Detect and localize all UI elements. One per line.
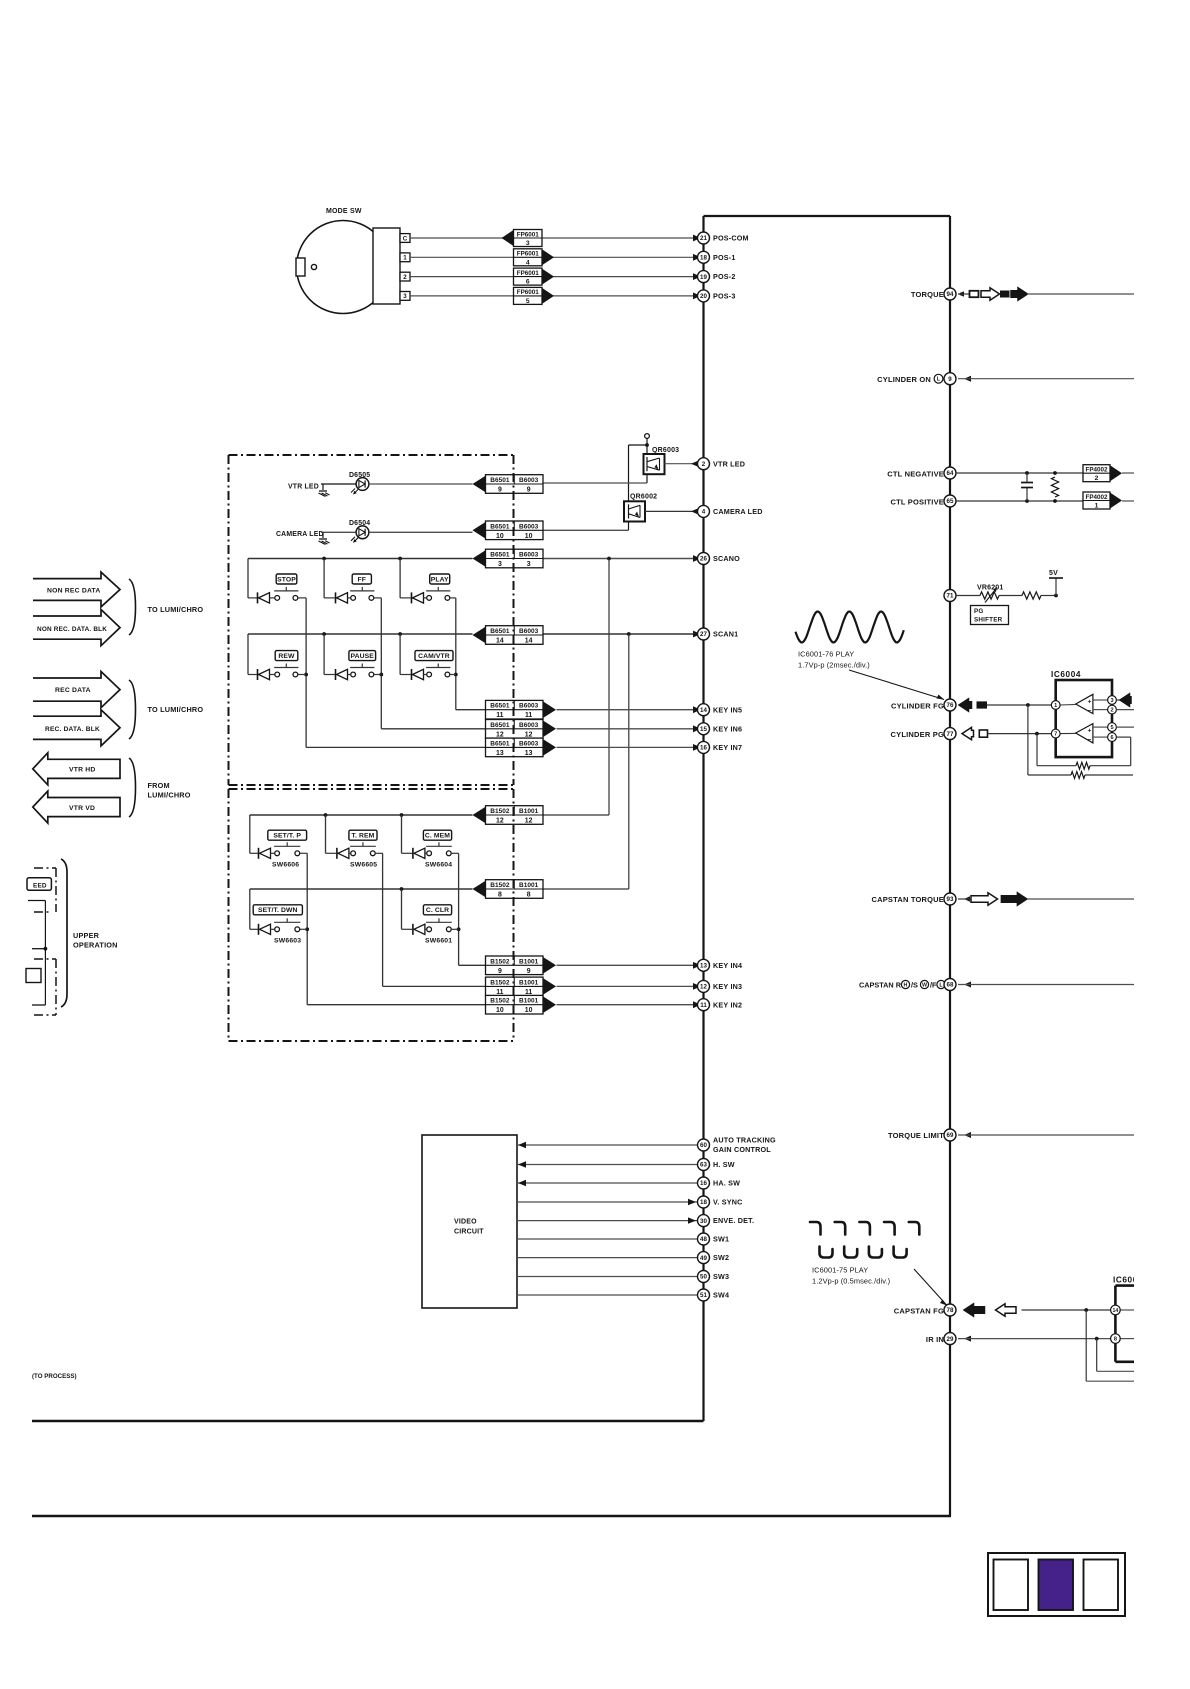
svg-text:12: 12 xyxy=(496,817,504,824)
svg-text:B6003: B6003 xyxy=(519,523,539,530)
svg-text:GAIN CONTROL: GAIN CONTROL xyxy=(713,1145,771,1154)
svg-text:CAPSTAN FG: CAPSTAN FG xyxy=(894,1306,944,1315)
svg-text:POS-COM: POS-COM xyxy=(713,234,749,243)
svg-text:10: 10 xyxy=(496,1007,504,1014)
svg-text:SW3: SW3 xyxy=(713,1272,729,1281)
svg-text:REC. DATA. BLK: REC. DATA. BLK xyxy=(45,726,100,733)
svg-text:B6501: B6501 xyxy=(490,740,510,747)
svg-text:FF: FF xyxy=(358,576,367,583)
svg-text:REC DATA: REC DATA xyxy=(55,687,91,694)
svg-text:TORQUE LIMIT: TORQUE LIMIT xyxy=(888,1131,944,1140)
svg-text:68: 68 xyxy=(947,982,954,989)
svg-text:9: 9 xyxy=(527,968,531,975)
svg-text:SW6605: SW6605 xyxy=(350,862,377,869)
svg-text:5: 5 xyxy=(1110,725,1113,731)
svg-text:TORQUE: TORQUE xyxy=(911,290,944,299)
svg-text:IR IN: IR IN xyxy=(926,1335,944,1344)
svg-text:B6003: B6003 xyxy=(519,703,539,710)
svg-text:18: 18 xyxy=(700,255,707,262)
svg-text:51: 51 xyxy=(700,1292,707,1299)
svg-text:SW2: SW2 xyxy=(713,1253,729,1262)
svg-text:FP6001: FP6001 xyxy=(517,289,540,296)
svg-text:QR6003: QR6003 xyxy=(652,447,679,454)
svg-text:EED: EED xyxy=(33,882,47,889)
svg-text:3: 3 xyxy=(1110,698,1113,704)
svg-text:B1502: B1502 xyxy=(490,808,510,815)
svg-text:−: − xyxy=(1088,737,1092,744)
svg-text:69: 69 xyxy=(947,1132,954,1139)
svg-text:12: 12 xyxy=(525,817,533,824)
svg-text:VTR LED: VTR LED xyxy=(288,484,319,491)
svg-text:16: 16 xyxy=(700,1180,707,1187)
svg-text:B1001: B1001 xyxy=(519,882,539,889)
svg-text:7: 7 xyxy=(1054,732,1057,738)
svg-text:10: 10 xyxy=(525,533,533,540)
svg-text:PAUSE: PAUSE xyxy=(351,653,375,660)
svg-text:12: 12 xyxy=(496,731,504,738)
svg-text:SW4: SW4 xyxy=(713,1291,729,1300)
svg-text:KEY IN5: KEY IN5 xyxy=(713,705,742,714)
svg-text:2: 2 xyxy=(403,274,407,281)
svg-text:−: − xyxy=(1088,708,1092,715)
svg-text:CYLINDER ON: CYLINDER ON xyxy=(877,375,931,384)
svg-text:KEY IN4: KEY IN4 xyxy=(713,961,742,970)
svg-text:14: 14 xyxy=(1113,1308,1119,1314)
svg-text:B6501: B6501 xyxy=(490,703,510,710)
svg-text:FP6001: FP6001 xyxy=(517,231,540,238)
svg-text:B1502: B1502 xyxy=(490,958,510,965)
svg-text:CAMERA LED: CAMERA LED xyxy=(276,531,324,538)
svg-text:OPERATION: OPERATION xyxy=(73,941,118,950)
svg-text:VR6201: VR6201 xyxy=(977,585,1004,592)
svg-text:L: L xyxy=(937,377,941,383)
svg-text:FP4002: FP4002 xyxy=(1085,466,1108,473)
svg-text:B6501: B6501 xyxy=(490,722,510,729)
svg-text:6: 6 xyxy=(526,279,530,286)
svg-text:B6501: B6501 xyxy=(490,551,510,558)
svg-text:/F: /F xyxy=(930,981,937,990)
svg-text:30: 30 xyxy=(700,1218,707,1225)
svg-text:T. REM: T. REM xyxy=(352,833,375,840)
svg-text:C. MEM: C. MEM xyxy=(425,833,450,840)
svg-text:11: 11 xyxy=(700,1002,707,1009)
svg-text:3: 3 xyxy=(498,561,502,568)
svg-text:POS-3: POS-3 xyxy=(713,292,736,301)
svg-text:B1502: B1502 xyxy=(490,998,510,1005)
svg-text:B6501: B6501 xyxy=(490,523,510,530)
svg-text:IC6004: IC6004 xyxy=(1051,670,1081,679)
svg-text:POS-2: POS-2 xyxy=(713,272,736,281)
svg-text:TO LUMI/CHRO: TO LUMI/CHRO xyxy=(148,705,204,714)
svg-text:2: 2 xyxy=(1095,475,1099,482)
svg-text:15: 15 xyxy=(700,726,707,733)
svg-text:CAMERA LED: CAMERA LED xyxy=(713,507,763,516)
svg-text:MODE SW: MODE SW xyxy=(326,208,362,215)
svg-text:SCANO: SCANO xyxy=(713,554,740,563)
svg-text:KEY IN7: KEY IN7 xyxy=(713,743,742,752)
svg-text:2: 2 xyxy=(1110,708,1113,714)
svg-text:14: 14 xyxy=(525,637,533,644)
svg-text:29: 29 xyxy=(947,1336,954,1343)
svg-text:9: 9 xyxy=(948,376,952,383)
svg-text:26: 26 xyxy=(700,556,707,563)
svg-text:48: 48 xyxy=(700,1236,707,1243)
svg-text:CAM/VTR: CAM/VTR xyxy=(418,653,450,660)
svg-text:C: C xyxy=(403,235,408,242)
svg-text:2: 2 xyxy=(702,461,706,468)
svg-text:B1001: B1001 xyxy=(519,979,539,986)
svg-text:1: 1 xyxy=(403,255,407,262)
svg-text:KEY IN6: KEY IN6 xyxy=(713,724,742,733)
svg-text:/S: /S xyxy=(911,981,918,990)
svg-text:8: 8 xyxy=(498,891,502,898)
svg-text:3: 3 xyxy=(526,240,530,247)
svg-text:B1001: B1001 xyxy=(519,998,539,1005)
svg-text:5V: 5V xyxy=(1049,570,1058,577)
svg-text:4: 4 xyxy=(702,509,706,516)
svg-text:B1001: B1001 xyxy=(519,958,539,965)
svg-text:CYLINDER FG: CYLINDER FG xyxy=(891,701,944,710)
svg-text:8: 8 xyxy=(1114,1337,1117,1343)
svg-text:49: 49 xyxy=(700,1255,707,1262)
svg-text:SW1: SW1 xyxy=(713,1235,729,1244)
svg-text:21: 21 xyxy=(700,235,707,242)
svg-text:B6003: B6003 xyxy=(519,477,539,484)
svg-text:+: + xyxy=(1088,727,1092,734)
svg-text:QR6002: QR6002 xyxy=(630,494,657,501)
svg-text:VTR LED: VTR LED xyxy=(713,459,745,468)
svg-text:SET/T. P: SET/T. P xyxy=(273,833,301,840)
svg-text:12: 12 xyxy=(525,731,533,738)
svg-text:B6003: B6003 xyxy=(519,722,539,729)
svg-text:AUTO TRACKING: AUTO TRACKING xyxy=(713,1136,776,1145)
svg-text:LUMI/CHRO: LUMI/CHRO xyxy=(148,791,191,800)
svg-text:C. CLR: C. CLR xyxy=(426,907,449,914)
svg-text:27: 27 xyxy=(700,631,707,638)
svg-text:63: 63 xyxy=(700,1162,707,1169)
svg-text:V. SYNC: V. SYNC xyxy=(713,1198,743,1207)
svg-text:B1001: B1001 xyxy=(519,808,539,815)
svg-text:10: 10 xyxy=(496,533,504,540)
svg-text:CYLINDER PG: CYLINDER PG xyxy=(891,730,944,739)
svg-text:IC6001-76 PLAY: IC6001-76 PLAY xyxy=(798,650,854,659)
svg-text:9: 9 xyxy=(527,486,531,493)
svg-text:IC6001-75 PLAY: IC6001-75 PLAY xyxy=(812,1265,868,1274)
svg-text:78: 78 xyxy=(947,1307,954,1314)
svg-text:13: 13 xyxy=(525,750,533,757)
svg-text:14: 14 xyxy=(496,637,504,644)
svg-text:50: 50 xyxy=(700,1274,707,1281)
svg-text:B6501: B6501 xyxy=(490,628,510,635)
svg-text:5: 5 xyxy=(526,298,530,305)
svg-text:3: 3 xyxy=(527,561,531,568)
svg-text:VIDEO: VIDEO xyxy=(454,1219,477,1226)
svg-text:FROM: FROM xyxy=(148,781,170,790)
svg-text:71: 71 xyxy=(947,593,954,600)
svg-text:8: 8 xyxy=(527,891,531,898)
svg-text:HA. SW: HA. SW xyxy=(713,1179,740,1188)
svg-text:SW6601: SW6601 xyxy=(425,938,452,945)
svg-text:H. SW: H. SW xyxy=(713,1160,735,1169)
svg-text:TO LUMI/CHRO: TO LUMI/CHRO xyxy=(148,605,204,614)
svg-text:20: 20 xyxy=(700,293,707,300)
svg-text:SHIFTER: SHIFTER xyxy=(974,616,1003,623)
svg-text:10: 10 xyxy=(525,1007,533,1014)
svg-text:VTR HD: VTR HD xyxy=(69,767,96,774)
svg-text:B1502: B1502 xyxy=(490,979,510,986)
svg-text:93: 93 xyxy=(947,896,954,903)
svg-text:1.2Vp-p (0.5msec./div.): 1.2Vp-p (0.5msec./div.) xyxy=(812,1276,890,1285)
svg-text:CIRCUIT: CIRCUIT xyxy=(454,1229,484,1236)
svg-text:B6501: B6501 xyxy=(490,477,510,484)
svg-text:SET/T. DWN: SET/T. DWN xyxy=(258,907,298,914)
svg-text:SCAN1: SCAN1 xyxy=(713,630,738,639)
svg-text:SW6603: SW6603 xyxy=(274,938,301,945)
svg-text:CAPSTAN TORQUE: CAPSTAN TORQUE xyxy=(871,895,944,904)
svg-text:64: 64 xyxy=(947,470,954,477)
svg-text:KEY IN3: KEY IN3 xyxy=(713,982,742,991)
svg-text:B6003: B6003 xyxy=(519,551,539,558)
svg-text:11: 11 xyxy=(525,712,532,719)
svg-text:CAPSTAN R: CAPSTAN R xyxy=(859,981,902,990)
svg-text:STOP: STOP xyxy=(277,576,296,583)
svg-text:6: 6 xyxy=(1110,735,1113,741)
svg-text:9: 9 xyxy=(498,486,502,493)
svg-text:65: 65 xyxy=(947,498,954,505)
svg-text:13: 13 xyxy=(700,963,707,970)
svg-text:76: 76 xyxy=(947,702,954,709)
svg-text:B6003: B6003 xyxy=(519,740,539,747)
svg-text:POS-1: POS-1 xyxy=(713,253,736,262)
svg-text:11: 11 xyxy=(496,712,503,719)
svg-text:FP6001: FP6001 xyxy=(517,251,540,258)
svg-text:FP6001: FP6001 xyxy=(517,270,540,277)
svg-text:60: 60 xyxy=(700,1142,707,1149)
svg-text:KEY IN2: KEY IN2 xyxy=(713,1000,742,1009)
svg-text:VTR VD: VTR VD xyxy=(69,805,95,812)
svg-text:(TO PROCESS): (TO PROCESS) xyxy=(32,1373,77,1380)
svg-text:UPPER: UPPER xyxy=(73,931,100,940)
svg-text:FP4002: FP4002 xyxy=(1085,494,1108,501)
svg-text:B6003: B6003 xyxy=(519,628,539,635)
svg-text:1.7Vp-p (2msec./div.): 1.7Vp-p (2msec./div.) xyxy=(798,661,870,670)
svg-text:SW6604: SW6604 xyxy=(425,862,452,869)
svg-text:ENVE. DET.: ENVE. DET. xyxy=(713,1216,754,1225)
svg-text:4: 4 xyxy=(526,259,530,266)
svg-text:B1502: B1502 xyxy=(490,882,510,889)
svg-text:CTL POSITIVE: CTL POSITIVE xyxy=(890,497,944,506)
svg-text:13: 13 xyxy=(496,750,504,757)
svg-text:1: 1 xyxy=(1054,703,1057,709)
svg-text:PLAY: PLAY xyxy=(431,576,449,583)
svg-text:NON REC DATA: NON REC DATA xyxy=(47,588,101,595)
svg-text:14: 14 xyxy=(700,707,707,714)
svg-text:SW6606: SW6606 xyxy=(272,862,299,869)
svg-text:NON REC. DATA. BLK: NON REC. DATA. BLK xyxy=(37,626,107,633)
svg-text:19: 19 xyxy=(700,274,707,281)
svg-text:+: + xyxy=(1088,698,1092,705)
svg-text:CTL NEGATIVE: CTL NEGATIVE xyxy=(887,469,944,478)
svg-text:REW: REW xyxy=(278,653,295,660)
svg-text:94: 94 xyxy=(947,291,954,298)
svg-text:1: 1 xyxy=(1095,502,1099,509)
svg-text:12: 12 xyxy=(700,984,707,991)
svg-text:77: 77 xyxy=(947,731,954,738)
svg-text:3: 3 xyxy=(403,293,407,300)
svg-text:9: 9 xyxy=(498,968,502,975)
svg-text:16: 16 xyxy=(700,745,707,752)
svg-text:18: 18 xyxy=(700,1199,707,1206)
svg-text:H: H xyxy=(904,982,908,988)
svg-text:PG: PG xyxy=(974,608,984,615)
